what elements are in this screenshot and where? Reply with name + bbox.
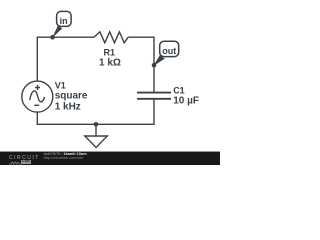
svg-text:1 kHz: 1 kHz — [55, 102, 81, 113]
svg-text:10 µF: 10 µF — [173, 95, 199, 106]
svg-text:out: out — [162, 46, 176, 56]
svg-text:1 kΩ: 1 kΩ — [99, 58, 121, 69]
svg-text:R1: R1 — [104, 48, 116, 58]
svg-text:square: square — [55, 90, 88, 101]
svg-text:C1: C1 — [173, 86, 185, 96]
svg-text:in: in — [60, 16, 68, 26]
svg-text:V1: V1 — [55, 80, 66, 90]
